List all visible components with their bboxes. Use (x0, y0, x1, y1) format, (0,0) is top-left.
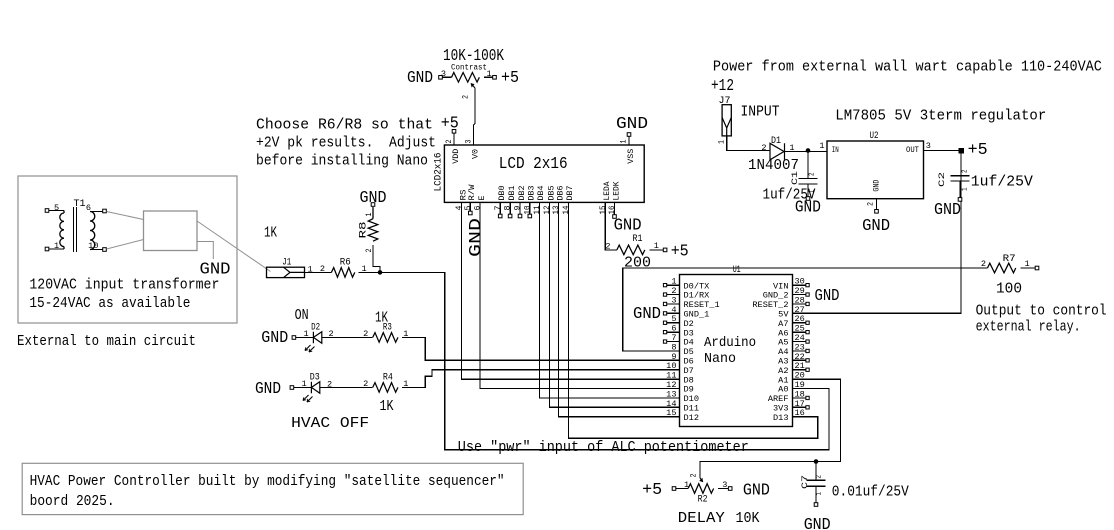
ground pad (VSS) (627, 133, 631, 137)
svg-text:15-24VAC as available: 15-24VAC as available (29, 294, 190, 312)
svg-text:1: 1 (302, 379, 307, 389)
ground label (contrast pot) (407, 69, 433, 87)
node: C7 junction (814, 459, 819, 464)
svg-text:2: 2 (981, 259, 986, 269)
enclosure box: external transformer section (18, 176, 237, 323)
wire: C2 to GND pad (959, 181, 961, 197)
LED D2 (304, 321, 334, 352)
title box (22, 463, 523, 514)
svg-text:7: 7 (493, 206, 503, 211)
svg-text:T1: T1 (74, 198, 86, 209)
pin name VSS (626, 149, 636, 164)
svg-text:R6: R6 (340, 257, 351, 268)
svg-text:D3: D3 (310, 372, 320, 383)
svg-text:R4: R4 (383, 372, 393, 383)
svg-text:LEDK: LEDK (611, 181, 621, 201)
svg-text:2: 2 (461, 95, 471, 99)
svg-text:D13: D13 (773, 413, 788, 423)
resistor R1 (605, 233, 659, 272)
svg-text:VDD: VDD (451, 149, 461, 164)
svg-text:0.01uf/25V: 0.01uf/25V (832, 483, 909, 501)
node: +5 output (959, 148, 965, 154)
+5 pad (R2) (672, 487, 676, 491)
output pad (relay) (1035, 266, 1039, 270)
svg-text:GND: GND (633, 305, 661, 323)
text: Choose R6/R8 note line 2 (256, 134, 436, 152)
svg-text:Power from external wall wart: Power from external wall wart capable 11… (713, 57, 1102, 75)
svg-text:2: 2 (320, 264, 325, 274)
svg-text:Nano: Nano (704, 351, 736, 367)
resistor R7 (981, 253, 1030, 298)
wire: R4 to nano D7 (402, 370, 679, 388)
svg-text:HVAC Power Controller built by: HVAC Power Controller built by modifying… (30, 472, 505, 490)
wire: nano A1 to R2 wiper (700, 379, 841, 478)
pot wiper arrow (471, 84, 475, 89)
text: 15-24VAC as available (29, 294, 190, 312)
svg-text:15: 15 (666, 408, 676, 418)
ground pad (U2) (875, 210, 879, 214)
+5 label (regulator output) (968, 141, 988, 159)
svg-text:R1: R1 (633, 233, 643, 244)
svg-text:Use "pwr" input of ALC potenti: Use "pwr" input of ALC potentiometer (458, 438, 749, 456)
svg-text:IN: IN (832, 145, 839, 155)
svg-text:GND: GND (743, 482, 770, 500)
text: 1uf/25V (C1) (763, 185, 816, 203)
rectifier block (unlabeled module) (144, 211, 198, 251)
ground label (GND_2) (815, 287, 840, 305)
text: Choose R6/R8 note line 3 (256, 152, 428, 170)
svg-text:LCD 2x16: LCD 2x16 (499, 155, 568, 173)
text: Output to control (976, 301, 1107, 319)
svg-text:120VAC input transformer: 120VAC input transformer (29, 275, 219, 293)
text: Power from external wall wart capable 110-240VAC (713, 57, 1102, 75)
svg-text:3: 3 (441, 69, 446, 79)
text: HVAC Power Controller line 1 (30, 472, 505, 490)
text: 10K (736, 509, 761, 527)
text: 1uf/25V (C2) (971, 173, 1033, 191)
+5 pad (contrast pot) (493, 76, 497, 80)
svg-text:DB1: DB1 (507, 186, 517, 201)
wire: junction to C7 (815, 462, 817, 480)
ground label (D2) (261, 329, 288, 347)
svg-text:external relay.: external relay. (976, 317, 1081, 335)
svg-text:+5: +5 (501, 69, 519, 87)
svg-text:VSS: VSS (626, 149, 636, 164)
svg-text:GND: GND (255, 380, 281, 398)
svg-text:U2: U2 (870, 130, 879, 141)
text: 120VAC input transformer (29, 275, 219, 293)
svg-text:6: 6 (86, 203, 91, 213)
svg-text:External to main circuit: External to main circuit (17, 332, 196, 350)
svg-text:1: 1 (962, 187, 970, 191)
wire: T1 pin 6 to block (gray) (107, 212, 144, 220)
svg-text:J7: J7 (719, 95, 731, 106)
svg-text:before installing Nano: before installing Nano (256, 152, 428, 170)
ground pad (R2) (728, 487, 732, 491)
pin 2 label (VDD) (444, 140, 454, 144)
svg-text:16: 16 (795, 408, 805, 418)
svg-text:2: 2 (816, 475, 824, 479)
svg-text:HVAC OFF: HVAC OFF (291, 414, 369, 432)
wire: LCD DB6 to nano D12 (559, 202, 680, 416)
ground pad (C2) (958, 198, 962, 202)
svg-text:boord 2025.: boord 2025. (30, 492, 115, 510)
wire: pot pin 1 to +5 pad (484, 76, 493, 78)
node: R6/R8/A0 junction (378, 270, 383, 275)
svg-text:1: 1 (619, 140, 629, 144)
svg-text:LCD2x16: LCD2x16 (433, 152, 444, 191)
capacitor C7 (800, 475, 826, 496)
ground pad (R8) (371, 203, 375, 207)
svg-text:C2: C2 (937, 172, 947, 187)
LED D3 (302, 372, 333, 403)
svg-text:DB6: DB6 (555, 186, 565, 201)
svg-text:8: 8 (503, 206, 513, 211)
wire: R7 to output pad (1021, 267, 1036, 269)
svg-text:GND: GND (261, 329, 288, 347)
ground label (D3) (255, 380, 281, 398)
svg-text:2: 2 (363, 329, 368, 339)
svg-text:1K: 1K (264, 223, 278, 241)
svg-text:GND: GND (616, 115, 648, 133)
svg-text:D2: D2 (311, 321, 320, 332)
resistor R6 (264, 223, 367, 277)
+5 label (R2) (642, 481, 662, 499)
wire: +5 to nano 5V (793, 153, 962, 313)
regulator U2 LM7805 (819, 130, 931, 206)
svg-text:Arduino: Arduino (704, 335, 756, 351)
svg-text:2: 2 (761, 143, 766, 153)
pin 3 label (V0) (464, 140, 474, 144)
svg-text:1: 1 (717, 140, 727, 144)
text: external relay. (976, 317, 1081, 335)
node: C1 junction (806, 148, 811, 153)
LCD unconnected data stubs DB0-DB3 (498, 202, 531, 217)
wire: J1 to R6 (305, 271, 332, 273)
svg-text:1: 1 (816, 492, 824, 496)
svg-text:1: 1 (54, 241, 59, 251)
svg-text:R/W: R/W (467, 184, 477, 201)
text: DELAY (678, 509, 725, 527)
pin name VDD (451, 149, 461, 164)
svg-text:10K: 10K (736, 509, 761, 527)
ground pad (R/W) (469, 211, 473, 215)
text: ON (295, 306, 309, 324)
microcontroller U1 Arduino Nano (663, 264, 809, 426)
svg-text:OUT: OUT (906, 145, 919, 155)
svg-text:GND: GND (872, 180, 882, 192)
capacitor C1 (790, 171, 818, 194)
svg-text:DB0: DB0 (497, 186, 507, 201)
wire: pad to D2 (296, 337, 314, 339)
+5 pad (R1) (663, 248, 667, 252)
ground label (R/W, rotated) (467, 218, 485, 257)
ground label (C2) (934, 201, 961, 219)
wire: LCD LEDK stub (614, 202, 616, 214)
resistor R3 (363, 309, 408, 343)
wire: R1 to +5 pad (650, 249, 664, 251)
wire: R2 to GND pad (718, 488, 728, 490)
ground pad (D3) (290, 386, 294, 390)
wire: D3 to R4 (320, 386, 373, 388)
connector J1 (267, 257, 313, 278)
svg-text:GND: GND (862, 217, 890, 235)
ground pad (D2) (292, 336, 296, 340)
connector J7 (717, 95, 732, 144)
wire: nano A0 to R6 junction (380, 272, 829, 449)
svg-text:GND: GND (804, 516, 831, 530)
svg-text:DB7: DB7 (565, 186, 575, 201)
svg-text:J1: J1 (282, 257, 291, 268)
svg-text:GND: GND (407, 69, 433, 87)
wire: C1 to GND pad (807, 184, 809, 197)
+5 label (R1) (671, 242, 689, 260)
ground pad (contrast pot) (439, 76, 443, 80)
wire: pad to D3 (294, 387, 312, 389)
wire: block to J1 (gray) (197, 221, 271, 272)
wire: block to GND (gray) (197, 242, 213, 260)
svg-text:3: 3 (464, 140, 474, 144)
svg-text:GND: GND (815, 287, 840, 305)
svg-text:1K: 1K (380, 397, 395, 415)
svg-text:R2: R2 (698, 494, 708, 505)
svg-text:2: 2 (809, 172, 817, 176)
wire: U2 OUT to +5 node (924, 150, 962, 152)
wire: C7 to GND pad (815, 486, 817, 502)
LCD bottom pin names (458, 181, 621, 201)
text: 0.01uf/25V (832, 483, 909, 501)
wire: pad to R2 (676, 488, 688, 490)
potentiometer Contrast 10K-100K (441, 47, 504, 82)
svg-text:2: 2 (444, 140, 454, 144)
svg-text:INPUT: INPUT (741, 103, 780, 121)
wire: LCD LEDA to R1 (605, 202, 617, 250)
ground label (transformer) (200, 261, 231, 279)
+5 label (contrast pot) (501, 69, 519, 87)
ground pad (LEDK) (613, 215, 617, 219)
svg-text:+2V pk results. Adjust: +2V pk results. Adjust (256, 134, 436, 152)
wire: U2 GND pin to pad (876, 199, 878, 210)
text: Choose R6/R8 note line 1 (256, 115, 433, 133)
wire: D1 to U2 IN (785, 151, 828, 153)
svg-text:9: 9 (513, 206, 523, 211)
svg-text:V0: V0 (470, 149, 480, 159)
ground label (LEDK) (614, 217, 642, 235)
wire: junction to C1 (807, 151, 809, 179)
svg-text:GND: GND (934, 201, 961, 219)
svg-text:11: 11 (532, 206, 542, 215)
svg-text:1: 1 (304, 329, 309, 339)
wire: LCD DB5 to nano D11 (550, 202, 680, 407)
svg-text:Choose R6/R8 so that: Choose R6/R8 so that (256, 115, 433, 133)
text: LM7805 5V 3term regulator (835, 106, 1046, 124)
svg-text:5: 5 (54, 203, 59, 213)
svg-text:1K: 1K (375, 309, 389, 327)
pin 1 label (VSS) (619, 140, 629, 144)
wire: LCD DB7 to nano D13 (via bottom) (568, 202, 817, 438)
LCD bottom pin numbers (454, 206, 617, 215)
wire: LCD R/W stub (469, 202, 471, 211)
svg-text:C1: C1 (790, 171, 800, 185)
svg-text:10K-100K: 10K-100K (443, 47, 504, 65)
wire: nano D5 to R7 rail (623, 268, 988, 351)
svg-text:5: 5 (463, 206, 473, 211)
diode D1 1N4007 (748, 135, 799, 174)
svg-text:1: 1 (819, 141, 824, 151)
svg-text:10: 10 (522, 206, 532, 215)
svg-text:DB2: DB2 (517, 186, 527, 201)
svg-text:D1: D1 (771, 135, 781, 146)
svg-text:2: 2 (866, 202, 876, 206)
svg-text:ON: ON (295, 306, 309, 324)
svg-text:LM7805 5V 3term regulator: LM7805 5V 3term regulator (835, 106, 1046, 124)
wire: R8 top to GND pad (372, 207, 374, 219)
wire: LCD DB4 to nano D10 (539, 202, 679, 398)
ground label (C7) (804, 516, 831, 530)
wire: J7 to D1 (727, 136, 770, 151)
svg-text:R8: R8 (358, 221, 369, 238)
transformer T1 (45, 198, 106, 252)
text: External to main circuit (17, 332, 196, 350)
wire: R6 to junction (359, 271, 380, 273)
ground label (R8) (360, 189, 387, 207)
wire: T1 pin 10 to block (gray) (107, 240, 144, 250)
+5 pad (VDD) (452, 130, 456, 134)
svg-text:U1: U1 (733, 264, 741, 275)
text: HVAC OFF (291, 414, 369, 432)
svg-text:GND: GND (360, 189, 387, 207)
wire: R8 bottom to junction (373, 245, 380, 273)
+12 label (711, 77, 734, 95)
text: HVAC Power Controller line 2 (30, 492, 115, 510)
svg-text:1uf/25V: 1uf/25V (971, 173, 1033, 191)
svg-text:GND: GND (614, 217, 642, 235)
ground label (LCD VSS) (616, 115, 648, 133)
ground pad (C1) (806, 197, 810, 201)
capacitor C2 (937, 169, 970, 191)
ground pad (C7) (814, 503, 818, 507)
svg-text:16: 16 (607, 206, 617, 215)
+5 label (LCD VDD) (441, 114, 459, 132)
svg-text:1: 1 (684, 480, 689, 490)
svg-text:100: 100 (996, 280, 1022, 298)
wire: D2 to R3 (322, 336, 373, 338)
wire: +5 node to C2 (960, 153, 962, 175)
svg-text:+12: +12 (711, 77, 734, 95)
resistor R4 (363, 372, 408, 415)
svg-text:DB3: DB3 (527, 186, 537, 201)
svg-text:GND: GND (467, 218, 485, 257)
svg-text:14: 14 (561, 206, 571, 215)
text: INPUT (741, 103, 780, 121)
wire: pad to pot pin 3 (443, 76, 452, 78)
potentiometer R2 DELAY 10K (684, 474, 727, 505)
svg-text:2: 2 (689, 474, 699, 478)
svg-text:C7: C7 (800, 475, 810, 489)
wire: +5 pad to VDD (453, 133, 455, 145)
ground label (C1) (795, 198, 821, 216)
svg-text:E: E (477, 196, 487, 201)
wire: LCD E to nano D9 (480, 202, 680, 388)
svg-text:+5: +5 (642, 481, 662, 499)
svg-text:2: 2 (605, 242, 610, 252)
svg-text:2: 2 (363, 379, 368, 389)
svg-text:R7: R7 (1003, 253, 1016, 264)
wiper pin 2 label (461, 95, 471, 99)
svg-text:13: 13 (551, 206, 561, 215)
svg-text:+5: +5 (671, 242, 689, 260)
svg-text:DB4: DB4 (536, 186, 546, 201)
svg-text:10: 10 (88, 241, 98, 251)
svg-text:+5: +5 (968, 141, 988, 159)
svg-text:6: 6 (473, 206, 483, 211)
pin name V0 (470, 149, 480, 159)
resistor R8 (358, 213, 378, 253)
ground label (GND_1) (633, 305, 661, 323)
svg-text:GND: GND (795, 198, 821, 216)
text: Use pwr note (458, 438, 749, 456)
svg-text:200: 200 (624, 254, 651, 272)
wire: R3 to nano D6 (402, 337, 679, 360)
ground label (U2) (862, 217, 890, 235)
LCD module LCD2x16 (433, 145, 645, 202)
svg-text:3: 3 (926, 141, 931, 151)
svg-text:D12: D12 (684, 413, 699, 423)
svg-text:DELAY: DELAY (678, 509, 725, 527)
wire: GND pad to VSS (628, 137, 630, 146)
svg-text:2: 2 (962, 169, 970, 173)
ground label (R2) (743, 482, 770, 500)
wire: wiper to LCD V0 (474, 88, 476, 145)
wire: LCD RS to nano D8 (462, 202, 680, 379)
